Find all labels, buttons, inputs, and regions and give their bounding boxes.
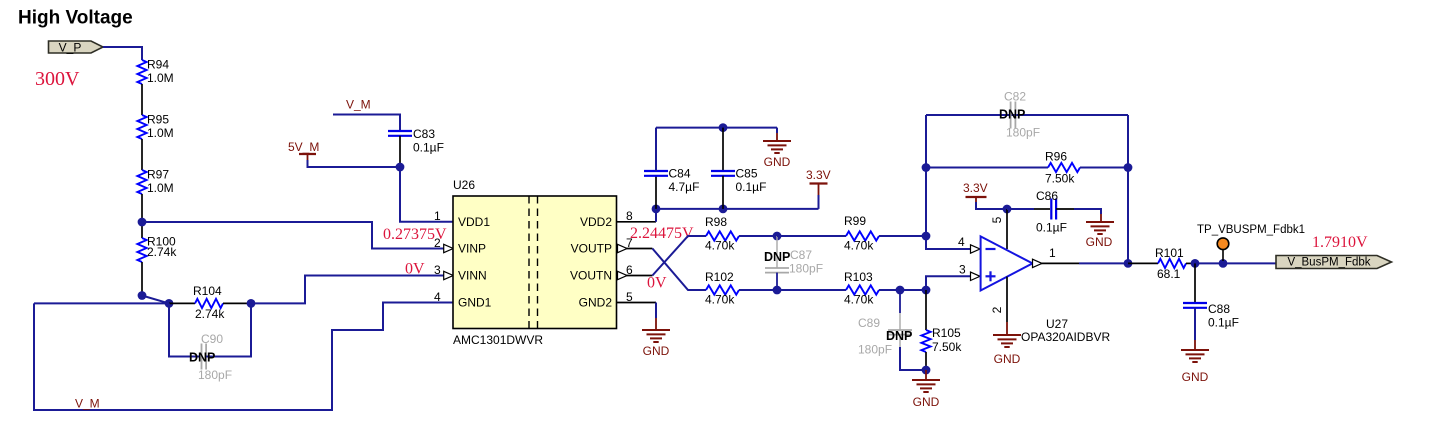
svg-text:V_BusPM_Fdbk: V_BusPM_Fdbk — [1287, 257, 1370, 269]
svg-text:2: 2 — [434, 236, 441, 250]
pin arrow VOUTP — [618, 244, 628, 252]
svg-text:R96: R96 — [1045, 150, 1067, 164]
svg-text:GND: GND — [1086, 235, 1113, 249]
svg-text:VINN: VINN — [458, 269, 487, 283]
capacitor C88 — [1183, 302, 1207, 304]
junction C87 bottom node — [773, 286, 782, 295]
svg-text:4.70k: 4.70k — [844, 293, 874, 307]
power 3.3V symbol opamp — [966, 196, 987, 198]
wire TP node to port — [1223, 262, 1276, 264]
wire V_M to C83 — [333, 115, 400, 132]
resistor R103 — [846, 285, 879, 294]
svg-text:1.0M: 1.0M — [147, 181, 174, 195]
wire VOUTP pin7 — [617, 248, 653, 250]
capacitor C85 — [711, 170, 735, 172]
svg-text:4.70k: 4.70k — [705, 293, 735, 307]
wire 3.3V to pin5 node — [976, 202, 1007, 209]
wire pin5 down — [655, 303, 657, 319]
resistor R98 — [706, 231, 739, 240]
wire feedback top — [926, 114, 1128, 116]
pin arrow VOUTN — [618, 271, 628, 279]
wire decoupling bottom rail — [656, 208, 819, 210]
svg-text:R105: R105 — [932, 326, 961, 340]
svg-text:7.50k: 7.50k — [932, 340, 962, 354]
wire 5V_M to node — [308, 160, 401, 167]
svg-text:U27: U27 — [1046, 317, 1068, 331]
wire pin8 up to rail — [655, 209, 657, 222]
wire VDD2 pin8 — [617, 221, 657, 223]
capacitor C90 plates — [201, 344, 203, 370]
op-amp U26 body AMC1301 — [453, 196, 617, 329]
svg-text:0.1µF: 0.1µF — [736, 180, 767, 194]
ground symbol R105 — [912, 379, 940, 381]
wire C85 vertical top — [722, 128, 724, 171]
svg-text:4: 4 — [958, 235, 965, 249]
ground symbol C88 — [1181, 349, 1209, 351]
svg-text:C84: C84 — [669, 167, 691, 181]
svg-text:4.70k: 4.70k — [705, 239, 735, 253]
U27 plus sign — [986, 275, 996, 277]
svg-text:4: 4 — [434, 290, 441, 304]
capacitor C84 — [644, 170, 668, 172]
wire R99 to node A — [879, 235, 926, 237]
port V_BusPM_Fdbk flag — [1276, 256, 1392, 269]
svg-text:C85: C85 — [736, 167, 758, 181]
resistor R99 — [846, 231, 879, 240]
svg-text:1.0M: 1.0M — [147, 126, 174, 140]
wire R96 row left — [926, 167, 1048, 169]
svg-text:DNP: DNP — [999, 108, 1025, 122]
svg-text:C83: C83 — [413, 127, 435, 141]
wire V_P to R94 top — [103, 47, 142, 60]
junction pin5 node — [1003, 205, 1012, 214]
power 5V_M symbol — [299, 153, 316, 155]
wire feedback right vertical — [1127, 115, 1129, 263]
junction C87 top node — [773, 232, 782, 241]
wire C83 to node — [399, 136, 401, 167]
svg-text:DNP: DNP — [764, 250, 790, 264]
wire VINP input — [142, 222, 444, 249]
wire VOUTN pin6 — [617, 275, 653, 277]
wire feedback left vertical — [925, 115, 927, 236]
wire node B to R105 — [925, 290, 927, 330]
svg-text:4.70k: 4.70k — [844, 239, 874, 253]
U26 isolation dashed line 1 — [528, 196, 530, 329]
junction C84 bottom — [652, 205, 661, 214]
wire node to VDD1 — [400, 167, 453, 222]
wire C84 to top rail — [655, 128, 657, 171]
capacitor C90 right wire — [206, 303, 251, 356]
junction node B — [922, 286, 931, 295]
junction R104 left node — [165, 299, 174, 308]
svg-text:U26: U26 — [453, 178, 475, 192]
wire R104 right stub — [223, 302, 251, 304]
wire C87node to R99 — [777, 235, 846, 237]
svg-text:GND1: GND1 — [458, 296, 492, 310]
junction R96 left — [922, 163, 931, 172]
junction R104 right node — [247, 299, 256, 308]
wire crossover VOUTN to upper row — [652, 236, 706, 276]
op-amp U27 triangle — [981, 236, 1033, 290]
capacitor C90 left wire — [169, 303, 199, 356]
svg-text:C90: C90 — [201, 332, 223, 346]
svg-text:1.0M: 1.0M — [147, 71, 174, 85]
junction R96 right — [1124, 163, 1133, 172]
wire pin2 GND stub — [1006, 322, 1008, 335]
svg-text:3: 3 — [959, 263, 966, 277]
svg-text:R103: R103 — [844, 270, 873, 284]
resistor R94 — [137, 60, 146, 84]
svg-text:DNP: DNP — [886, 329, 912, 343]
junction node VINP tap — [138, 218, 147, 227]
svg-text:R98: R98 — [705, 215, 727, 229]
resistor R104 — [195, 299, 223, 308]
wire pin5 vertical — [1006, 209, 1008, 249]
svg-text:GND: GND — [913, 395, 940, 409]
pin arrow U27 output — [1033, 259, 1043, 267]
wire U27 output pin1 — [1041, 262, 1079, 264]
svg-text:C88: C88 — [1208, 302, 1230, 316]
wire C88 vertical — [1194, 263, 1196, 303]
svg-text:VDD1: VDD1 — [458, 215, 490, 229]
svg-text:V_M: V_M — [75, 397, 100, 411]
svg-text:4.7µF: 4.7µF — [669, 180, 700, 194]
svg-text:VDD2: VDD2 — [580, 215, 612, 229]
svg-text:R99: R99 — [844, 214, 866, 228]
svg-text:R94: R94 — [147, 58, 169, 72]
wire pin5node to C86 — [1007, 208, 1034, 210]
junction C85 bottom — [719, 205, 728, 214]
svg-text:VOUTN: VOUTN — [570, 269, 612, 283]
wire C86 to GND — [1056, 208, 1074, 210]
svg-text:High Voltage: High Voltage — [18, 8, 133, 29]
svg-text:GND: GND — [994, 352, 1021, 366]
wire rail to GND — [776, 128, 778, 133]
svg-text:1.7910V: 1.7910V — [1312, 234, 1368, 251]
wire node B to pin3 — [926, 276, 971, 290]
U26 isolation dashed line 2 — [537, 196, 539, 329]
svg-text:5: 5 — [990, 216, 1004, 223]
svg-text:GND2: GND2 — [579, 296, 613, 310]
svg-text:R95: R95 — [147, 113, 169, 127]
ground symbol U27 pin2 — [993, 334, 1021, 336]
svg-text:C89: C89 — [858, 316, 880, 330]
wire C88node to TP node — [1195, 262, 1223, 264]
pin arrow VINP — [444, 244, 454, 252]
resistor R97 — [137, 170, 146, 194]
junction output node — [1124, 259, 1133, 268]
wire R96 row right — [1080, 167, 1128, 169]
wire R103 to C89 node — [879, 289, 900, 291]
svg-text:R101: R101 — [1155, 246, 1184, 260]
svg-text:180pF: 180pF — [198, 368, 232, 382]
wire R104 left stub — [169, 302, 195, 304]
wire C89 bottom to GND node — [900, 347, 926, 370]
svg-text:OPA320AIDBVR: OPA320AIDBVR — [1021, 330, 1110, 344]
wire R95-R97 — [141, 139, 143, 170]
svg-text:2.74k: 2.74k — [195, 307, 225, 321]
wire crossover VOUTP to lower row — [652, 249, 706, 291]
svg-text:3.3V: 3.3V — [963, 181, 988, 195]
port V_P flag — [49, 41, 104, 53]
resistor R95 — [137, 115, 146, 139]
svg-text:180pF: 180pF — [1006, 126, 1040, 140]
wire R104 to VINN riser — [251, 276, 444, 304]
wire C84 vertical top — [655, 176, 657, 209]
wire left rail horizontal — [34, 302, 169, 304]
svg-text:0V: 0V — [405, 261, 425, 278]
junction TP node — [1219, 259, 1228, 268]
wire output to R101 — [1128, 262, 1158, 264]
svg-text:DNP: DNP — [189, 351, 215, 365]
wire R101 to C88 node — [1186, 262, 1195, 264]
svg-text:V_P: V_P — [59, 41, 82, 55]
net V_M left rail — [34, 303, 453, 411]
wire diagonal to R104 node — [142, 296, 169, 304]
svg-text:R97: R97 — [147, 168, 169, 182]
junction below R100 — [138, 291, 147, 300]
wire GND2 pin5 — [617, 302, 657, 304]
svg-text:7.50k: 7.50k — [1045, 172, 1075, 186]
wire decoupling top rail — [656, 127, 777, 129]
svg-text:VINP: VINP — [458, 242, 486, 256]
test point TP_VBUSPM_Fdbk1 — [1222, 250, 1224, 261]
wire R94-R95 — [141, 84, 143, 115]
junction node A — [922, 232, 931, 241]
wire R102 to C87 node — [739, 289, 777, 291]
svg-text:3.3V: 3.3V — [806, 168, 831, 182]
svg-text:GND: GND — [643, 344, 670, 358]
svg-text:R102: R102 — [705, 270, 734, 284]
capacitor C83 — [388, 130, 412, 132]
capacitor C82 body DNP — [1010, 102, 1012, 129]
svg-text:68.1: 68.1 — [1157, 267, 1181, 281]
svg-text:300V: 300V — [35, 68, 80, 90]
svg-text:R104: R104 — [193, 284, 222, 298]
svg-text:2.74k: 2.74k — [147, 245, 177, 259]
pin arrow U27 pin4 — [971, 245, 981, 253]
svg-text:C87: C87 — [790, 248, 812, 262]
wire C85 vertical bottom — [722, 176, 724, 209]
svg-text:GND: GND — [764, 155, 791, 169]
svg-text:V_M: V_M — [346, 98, 371, 112]
svg-text:C86: C86 — [1036, 189, 1058, 203]
capacitor C89 body DNP — [899, 290, 901, 313]
U27 pin number 5 — [990, 216, 1004, 223]
svg-text:180pF: 180pF — [858, 343, 892, 357]
capacitor C86 — [1050, 199, 1052, 220]
svg-text:0.1µF: 0.1µF — [413, 141, 444, 155]
U27 pin number 2 — [990, 306, 1004, 313]
wire C88 to GND — [1194, 308, 1196, 340]
svg-text:0.1µF: 0.1µF — [1036, 221, 1067, 235]
wire output to node — [1079, 262, 1128, 264]
resistor R101 — [1158, 259, 1186, 268]
wire 3.3V to rail — [818, 195, 820, 209]
wire GND stub R105 — [925, 370, 927, 380]
svg-text:8: 8 — [626, 209, 633, 223]
junction C88 node — [1191, 259, 1200, 268]
svg-text:GND: GND — [1182, 370, 1209, 384]
svg-text:180pF: 180pF — [789, 262, 823, 276]
junction R105 GND node — [922, 366, 931, 375]
svg-text:C82: C82 — [1004, 90, 1026, 104]
pin arrow VINN — [444, 271, 454, 279]
wire pin2 vertical — [1006, 277, 1008, 322]
wire R97-R100 — [141, 194, 143, 238]
wire C89node to node B — [900, 289, 926, 291]
resistor R96 — [1048, 163, 1080, 172]
svg-text:1: 1 — [1049, 246, 1056, 260]
pin arrow U27 pin3 — [971, 272, 981, 280]
capacitor C87 body DNP — [776, 236, 778, 268]
svg-text:VOUTP: VOUTP — [571, 242, 612, 256]
wire R105 to GND node — [925, 352, 927, 370]
resistor R105 — [921, 330, 930, 352]
svg-text:5V_M: 5V_M — [288, 140, 319, 154]
svg-text:1: 1 — [434, 209, 441, 223]
ground symbol C86 — [1086, 221, 1114, 223]
svg-text:TP_VBUSPM_Fdbk1: TP_VBUSPM_Fdbk1 — [1197, 224, 1305, 236]
ground symbol GND2 — [642, 329, 670, 331]
svg-text:0V: 0V — [647, 275, 667, 292]
junction C85 top — [719, 123, 728, 132]
resistor R102 — [706, 285, 739, 294]
resistor R100 — [137, 238, 146, 262]
ground symbol top GND — [763, 140, 791, 142]
U27 minus sign — [986, 248, 996, 250]
svg-text:AMC1301DWVR: AMC1301DWVR — [453, 333, 543, 347]
power 3.3V symbol top — [810, 182, 828, 184]
wire node A to pin4 — [926, 236, 971, 249]
wire R98 to C87 node — [739, 235, 777, 237]
junction C83/5V_M node — [396, 163, 405, 172]
svg-text:2: 2 — [990, 306, 1004, 313]
junction C89 top node — [896, 286, 905, 295]
wire R100 bottom — [141, 262, 143, 296]
wire C87node to R103 — [777, 289, 846, 291]
svg-text:0.1µF: 0.1µF — [1208, 316, 1239, 330]
svg-text:3: 3 — [434, 263, 441, 277]
